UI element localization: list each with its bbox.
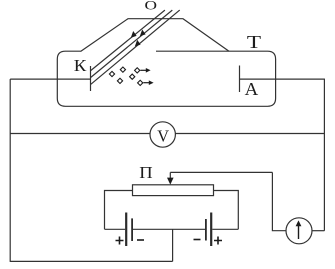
svg-text:П: П — [139, 163, 152, 182]
svg-text:A: A — [245, 79, 259, 99]
svg-text:V: V — [157, 126, 169, 145]
svg-text:O: O — [145, 0, 158, 13]
svg-text:К: К — [74, 56, 88, 75]
svg-text:T: T — [247, 32, 262, 52]
